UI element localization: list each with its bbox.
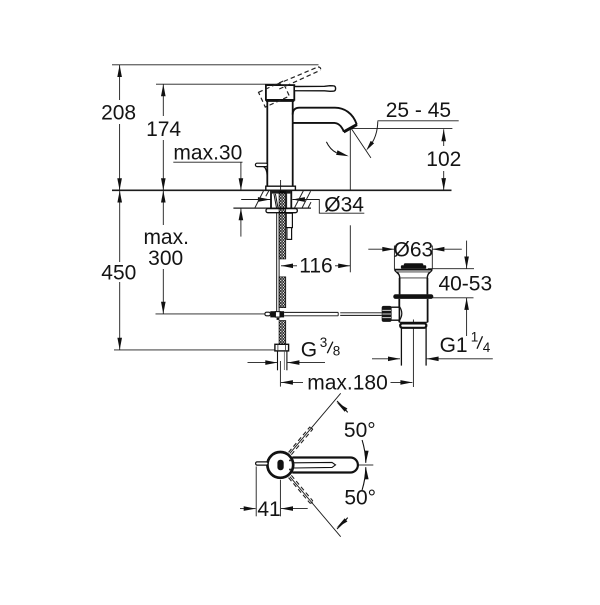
svg-text:Ø63: Ø63 xyxy=(394,238,434,261)
svg-text:25 - 45: 25 - 45 xyxy=(386,99,451,122)
svg-text:8: 8 xyxy=(333,343,341,358)
svg-text:G1: G1 xyxy=(440,334,468,357)
svg-text:4: 4 xyxy=(483,340,491,355)
svg-text:G: G xyxy=(301,338,317,361)
svg-text:max.180: max.180 xyxy=(307,371,388,394)
svg-text:41: 41 xyxy=(257,498,280,521)
svg-text:450: 450 xyxy=(101,262,136,285)
svg-text:174: 174 xyxy=(146,118,181,141)
svg-text:max.30: max.30 xyxy=(173,142,242,165)
svg-text:1: 1 xyxy=(471,329,479,344)
svg-text:300: 300 xyxy=(148,247,183,270)
svg-text:40-53: 40-53 xyxy=(438,272,492,295)
svg-text:102: 102 xyxy=(426,148,461,171)
svg-text:max.: max. xyxy=(143,226,189,249)
svg-text:50°: 50° xyxy=(344,419,376,442)
svg-text:Ø34: Ø34 xyxy=(324,194,364,217)
svg-text:116: 116 xyxy=(299,255,332,278)
svg-text:208: 208 xyxy=(101,102,136,125)
svg-text:3: 3 xyxy=(320,335,328,350)
svg-text:50°: 50° xyxy=(344,487,376,510)
